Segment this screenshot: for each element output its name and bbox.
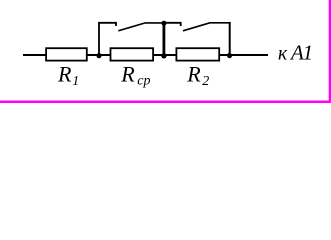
- switch S2 blade and right rail: [183, 23, 231, 31]
- resistor Rcp: [111, 48, 154, 60]
- svg-text:к: к: [278, 44, 288, 65]
- wire main horizontal: [23, 54, 268, 56]
- svg-text:R: R: [186, 61, 201, 86]
- svg-text:cp: cp: [137, 74, 150, 89]
- node junction middle bottom: [161, 53, 166, 58]
- node junction at R1-Rcp: [96, 53, 101, 58]
- svg-text:R: R: [57, 61, 72, 86]
- svg-text:2: 2: [202, 74, 209, 89]
- switch S2 fixed contact (rail and post): [164, 23, 181, 26]
- resistor R2: [176, 48, 219, 60]
- resistor R1: [46, 48, 87, 60]
- border bottom magenta: [0, 100, 331, 103]
- switch S2 right vertical wire: [229, 22, 231, 55]
- svg-text:1: 1: [303, 41, 314, 65]
- svg-text:1: 1: [72, 74, 79, 89]
- border right magenta: [329, 0, 331, 103]
- svg-text:R: R: [120, 61, 135, 86]
- node junction at R2 right: [227, 53, 232, 58]
- wire middle vertical (thick): [162, 23, 165, 56]
- switch S1 blade and right rail: [118, 23, 164, 31]
- switch S1 fixed contact (left post and rail): [99, 23, 116, 55]
- node junction middle top: [161, 21, 166, 26]
